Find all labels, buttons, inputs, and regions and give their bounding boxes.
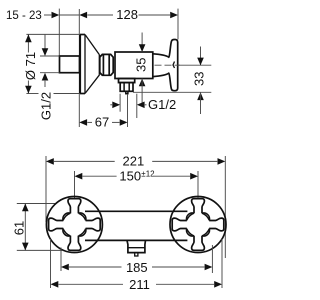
svg-text:±12: ±12 xyxy=(141,169,155,178)
svg-text:221: 221 xyxy=(123,154,145,169)
svg-text:128: 128 xyxy=(116,7,138,22)
svg-text:G1/2: G1/2 xyxy=(148,97,176,112)
svg-text:211: 211 xyxy=(129,277,150,292)
svg-text:185: 185 xyxy=(126,260,148,275)
svg-text:Ø 71: Ø 71 xyxy=(23,52,38,80)
svg-text:67: 67 xyxy=(95,115,109,130)
svg-text:33: 33 xyxy=(191,72,206,86)
svg-text:35: 35 xyxy=(134,58,149,72)
svg-text:61: 61 xyxy=(11,221,26,235)
svg-text:15 - 23: 15 - 23 xyxy=(6,10,42,22)
svg-text:G1/2: G1/2 xyxy=(39,92,54,120)
svg-text:150: 150 xyxy=(119,169,141,184)
